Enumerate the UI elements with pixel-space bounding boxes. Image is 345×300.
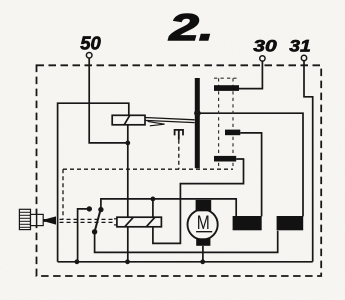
ignition key knob (19, 209, 30, 229)
wire: contact bar to field winding 2 (200, 113, 303, 216)
return spring (175, 130, 183, 140)
linkage: key to pull-in winding (dashed rod) (60, 218, 115, 220)
field winding 2 (277, 216, 304, 230)
switch fixed contact (left) (87, 206, 92, 211)
motor M brush (bottom) (196, 238, 210, 246)
contact bridge guide (dashed) (214, 77, 237, 79)
wire: relay coil top to left ground branch (58, 103, 129, 262)
junction: motor to rail (200, 259, 205, 264)
relay coil (hold-in winding) (112, 115, 145, 125)
wire: motor to ground rail (202, 246, 204, 262)
contact bar B (225, 130, 240, 136)
linkage: horizontal dashed bar (63, 168, 233, 170)
motor M1 (188, 209, 218, 239)
switch fixed contact (right) (98, 207, 103, 212)
terminal 30 (260, 56, 265, 61)
wire: terminal 31 to ground rail (304, 61, 313, 262)
junction: switch contact to rail (75, 259, 80, 264)
contact bar A (to terminal 30) (214, 85, 239, 91)
pull-in winding (lower coil) (117, 217, 161, 227)
ground rail (58, 261, 313, 263)
wire: pull-in winding bottom to contact bar C (153, 159, 244, 243)
moving contact bar (195, 78, 200, 168)
wire: relay coil bottom / hold-in winding feed (127, 125, 129, 262)
terminal 50 (86, 53, 92, 59)
wire: switch pivot to field winding 2 return (95, 231, 278, 253)
field winding 1 (233, 216, 262, 230)
plunger armature wedge (148, 121, 165, 125)
wire: terminal 50 down to coil junction (89, 58, 128, 143)
contact bar C (214, 156, 236, 162)
junction: feed to pull-in winding (151, 197, 156, 202)
terminal 31 (301, 55, 306, 60)
switch pivot contact (92, 229, 97, 234)
linkage: spring to switch mechanism (dashed) (178, 140, 180, 169)
key shaft (31, 214, 44, 225)
junction: hold-in winding to rail (125, 259, 130, 264)
solenoid plunger rod (145, 118, 195, 120)
outer dashed enclosure (starter housing) (37, 65, 322, 276)
wire: terminal 30 to contact bar A (239, 61, 262, 89)
wire: switch feed to motor and field winding 1 (101, 199, 236, 217)
wire: contact bar B to field winding 1 (240, 133, 261, 217)
housing border dash across shaft (36, 214, 38, 227)
wire: junction down to pull-in winding top (152, 199, 154, 217)
switch blade (95, 210, 101, 232)
linkage fork at pull-in winding (114, 218, 117, 220)
motor M brush (top) (196, 200, 212, 211)
wire: left contact to ground rail (78, 209, 90, 262)
linkage: dashed drop to key switch (62, 169, 64, 219)
key actuator funnel (43, 216, 56, 224)
junction: terminal 50 / relay coil / hold-in winding (125, 141, 130, 146)
junction on contact bar (194, 110, 201, 117)
